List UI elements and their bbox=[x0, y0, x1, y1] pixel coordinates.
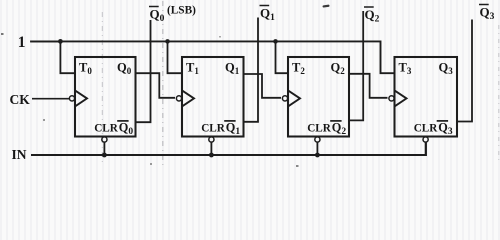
svg-text:Q1: Q1 bbox=[260, 6, 275, 23]
svg-text:CLR: CLR bbox=[307, 123, 332, 135]
svg-text:Q2: Q2 bbox=[365, 7, 380, 24]
svg-text:Q1: Q1 bbox=[225, 60, 240, 75]
svg-text:Q3: Q3 bbox=[439, 60, 454, 75]
svg-text:Q2: Q2 bbox=[332, 121, 347, 137]
svg-text:Q3: Q3 bbox=[438, 121, 453, 137]
svg-text:CLR: CLR bbox=[414, 123, 439, 135]
svg-text:CLR: CLR bbox=[94, 123, 119, 135]
svg-text:T3: T3 bbox=[399, 60, 412, 75]
svg-text:Q0: Q0 bbox=[150, 7, 165, 24]
svg-text:T1: T1 bbox=[186, 60, 199, 75]
svg-text:Q1: Q1 bbox=[226, 121, 241, 137]
svg-text:(LSB): (LSB) bbox=[167, 5, 196, 17]
svg-text:T2: T2 bbox=[292, 60, 305, 75]
svg-text:Q2: Q2 bbox=[331, 60, 346, 75]
svg-text:Q3: Q3 bbox=[480, 5, 495, 22]
svg-text:CK: CK bbox=[10, 92, 31, 107]
svg-text:IN: IN bbox=[12, 147, 27, 162]
svg-text:T0: T0 bbox=[79, 60, 92, 75]
svg-text:Q0: Q0 bbox=[119, 121, 134, 137]
svg-text:CLR: CLR bbox=[201, 123, 226, 135]
svg-text:Q0: Q0 bbox=[117, 60, 132, 75]
svg-text:1: 1 bbox=[18, 34, 26, 51]
